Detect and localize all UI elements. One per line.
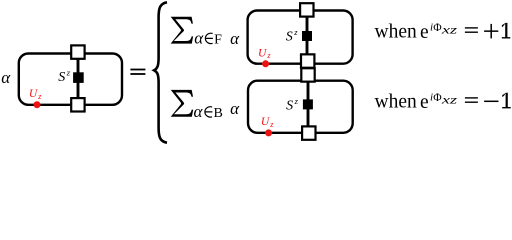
svg-text:e: e [420, 22, 429, 43]
loop L3 (bottom-right tensor trace loop, alpha in B) [248, 81, 353, 133]
svg-text:α: α [230, 29, 240, 48]
loop L1 (left-hand-side tensor trace loop alpha) [19, 54, 122, 105]
svg-text:S: S [286, 98, 293, 113]
wire (bottom-right vertical leg) [307, 70, 310, 134]
wire (top-right vertical leg) [306, 4, 309, 66]
svg-text:z: z [66, 68, 71, 78]
svg-text:xz: xz [440, 94, 458, 106]
loop L2 (top-right tensor trace loop, alpha in F) [248, 11, 353, 64]
svg-text:α: α [194, 28, 204, 47]
operator Sz black square (LHS) [73, 72, 84, 83]
tensor square bottom (top right, upper middle) [301, 54, 314, 67]
curly brace [154, 2, 167, 142]
svg-text:z: z [294, 96, 299, 106]
equals sign (LHS = RHS) [130, 69, 145, 71]
svg-text:α: α [1, 68, 11, 87]
sum sigma (bottom, over alpha in B) [171, 90, 193, 117]
svg-text:when: when [375, 22, 417, 43]
tensor square top (top right) [300, 3, 313, 16]
operator Sz black square (top right) [302, 31, 312, 41]
sum sigma (top, over alpha in F) [171, 17, 193, 44]
node Uz red dot (top right) [262, 60, 269, 67]
svg-text:S: S [286, 29, 293, 44]
svg-text:e: e [420, 92, 429, 113]
svg-text:B: B [214, 106, 223, 121]
wire (LHS vertical leg) [77, 51, 80, 107]
svg-text:U: U [29, 88, 38, 100]
svg-text:α: α [194, 102, 204, 121]
svg-text:z: z [293, 27, 298, 37]
tensor square bottom (bottom right) [302, 126, 315, 139]
node Uz red dot (bottom right) [265, 129, 272, 136]
svg-text:S: S [58, 70, 65, 85]
svg-text:F: F [214, 32, 222, 47]
tensor square bottom (LHS) [71, 98, 84, 111]
operator Sz black square (bottom right) [303, 99, 313, 109]
node Uz red dot (LHS) [34, 101, 41, 108]
svg-text:α: α [230, 99, 240, 118]
svg-text:xz: xz [440, 24, 458, 36]
svg-text:when: when [375, 92, 417, 113]
svg-text:U: U [258, 47, 267, 59]
tensor square top (LHS) [71, 45, 84, 58]
tensor square top (bottom right, lower middle) [301, 68, 314, 81]
svg-text:U: U [261, 116, 270, 128]
